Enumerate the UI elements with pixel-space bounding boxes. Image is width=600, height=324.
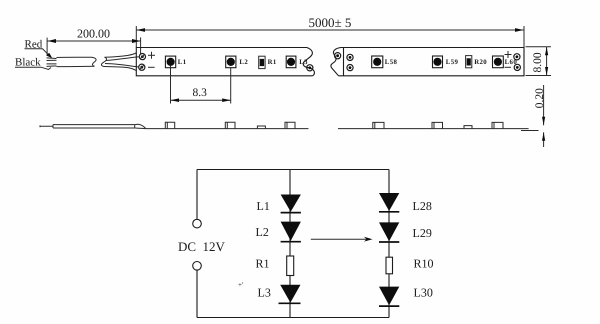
LED L2 symbol: [256, 222, 301, 242]
svg-text:DC 12V: DC 12V: [178, 239, 226, 254]
resistor R1 bump (side view): [257, 126, 265, 129]
svg-text:+′: +′: [238, 281, 244, 289]
svg-text:R10: R10: [414, 257, 434, 271]
LED L58 (top view): [372, 56, 398, 68]
solder pad + (right end): [505, 51, 521, 60]
LED L1 bump (side view): [165, 122, 174, 128]
dimension 200.00: [47, 27, 141, 56]
dimension 5000±5: [136, 15, 524, 48]
LED L3 (top view): [286, 56, 308, 68]
LED L60 bump (side view): [492, 122, 503, 128]
resistor R1 symbol: [256, 256, 294, 276]
LED L2 (top view): [226, 56, 249, 68]
svg-text:L59: L59: [446, 59, 459, 66]
schematic left wire lower: [196, 270, 198, 317]
cable break right piece: [101, 57, 106, 66]
inner wire to - pad: [105, 64, 138, 68]
svg-text:R1: R1: [256, 257, 270, 271]
LED L2 bump (side view): [225, 122, 235, 128]
svg-text:L1: L1: [257, 199, 270, 213]
terminal + circle: [193, 219, 202, 228]
cut-line pad on right segment: [335, 53, 341, 59]
resistor R1 (top view): [259, 56, 277, 68]
dimension 8.3: [171, 66, 231, 104]
LED L1 symbol: [257, 195, 301, 214]
svg-text:R20: R20: [474, 59, 487, 66]
LED strip right segment body (top view): [331, 48, 524, 76]
LED L59 bump (side view): [432, 122, 443, 128]
repetition arrow: [311, 237, 373, 242]
LED L28 symbol: [379, 193, 432, 213]
solder pad - (left end): [139, 64, 155, 70]
schematic right branch wire: [388, 170, 390, 318]
solder pad + (left end): [139, 52, 155, 60]
svg-text:L2: L2: [256, 225, 269, 239]
solder pads at right segment left end: [347, 54, 353, 70]
schematic left wire upper: [196, 170, 198, 220]
resistor R10 symbol: [386, 257, 434, 274]
red/black wire cable (top view): [47, 53, 139, 70]
svg-text:0.20: 0.20: [534, 88, 546, 108]
svg-text:L28: L28: [413, 199, 432, 213]
jagged cut edge of left segment: [303, 48, 314, 76]
svg-text:8.3: 8.3: [193, 87, 208, 99]
dimension 8.00: [526, 47, 552, 76]
red wire stripped end: [47, 58, 57, 61]
resistor R20 (top view): [466, 56, 488, 68]
resistor R20 bump (side view): [464, 126, 472, 129]
strip base line left part (side view): [146, 128, 309, 130]
solder pad - (right end): [505, 64, 521, 70]
strip base line right part (side view): [338, 128, 529, 130]
svg-text:L29: L29: [413, 226, 432, 240]
inner wire to + pad: [106, 57, 139, 61]
svg-text:L58: L58: [385, 59, 398, 66]
svg-text:L3: L3: [258, 286, 271, 300]
LED L3 bump (side view): [285, 122, 295, 128]
schematic bottom wire: [197, 317, 389, 319]
svg-text:200.00: 200.00: [77, 27, 110, 41]
connector wedge (side view): [135, 124, 146, 128]
svg-text:L30: L30: [414, 286, 433, 300]
LED L60 (top view): [493, 56, 518, 68]
black wire stripped end: [47, 64, 57, 67]
LED strip left segment body (top view): [136, 48, 314, 76]
schematic left branch wire: [289, 170, 291, 318]
svg-text:R1: R1: [268, 59, 277, 66]
dimension 0.20: [521, 85, 546, 147]
LED L59 (top view): [433, 56, 459, 68]
LED L1 (top view): [165, 56, 186, 68]
svg-text:L1: L1: [178, 59, 187, 66]
wire label Red: [25, 39, 53, 59]
svg-text:Black: Black: [15, 56, 41, 68]
LED L3 symbol: [258, 285, 301, 304]
cable outline upper edge: [57, 57, 97, 66]
cable right piece upper edge: [105, 53, 137, 57]
cable right piece lower edge: [104, 67, 136, 71]
svg-text:5000± 5: 5000± 5: [309, 15, 352, 30]
terminal - circle: [193, 262, 202, 271]
LED L58 bump (side view): [373, 122, 384, 128]
cut-line pad on left segment: [307, 65, 313, 71]
svg-text:8.00: 8.00: [532, 52, 544, 72]
wire (side view): [40, 124, 146, 128]
LED L30 symbol: [379, 286, 433, 307]
svg-text:L2: L2: [239, 59, 248, 66]
schematic top wire: [197, 169, 389, 171]
LED L29 symbol: [379, 222, 432, 242]
cable outline lower edge: [57, 65, 95, 67]
wire label Black: [15, 56, 51, 69]
svg-text:L3: L3: [299, 59, 308, 66]
